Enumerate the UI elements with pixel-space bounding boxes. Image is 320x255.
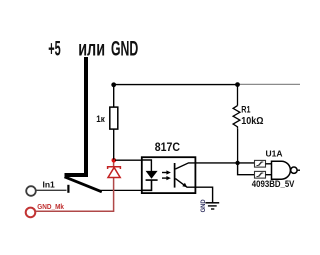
svg-text:U1A: U1A — [266, 148, 283, 158]
svg-text:R1: R1 — [241, 105, 251, 115]
optocoupler U2 817C box — [142, 157, 196, 193]
junction dot gate input — [235, 161, 239, 165]
svg-text:4093BD_5V: 4093BD_5V — [252, 179, 295, 190]
gate input box 1 — [255, 160, 266, 167]
junction node red dot — [112, 158, 117, 163]
wire 1k bottom to node — [113, 129, 115, 160]
wire collector to gate input1 — [175, 163, 254, 169]
wire box2 to gate — [266, 174, 272, 176]
opto LED triangle — [146, 171, 158, 179]
resistor R1 zigzag — [233, 106, 240, 129]
junction dot 1k top — [111, 82, 116, 87]
svg-text:GND_Mk: GND_Mk — [37, 204, 64, 211]
phototransistor emitter — [175, 179, 212, 203]
coupling arrow 2 — [162, 176, 171, 180]
opto LED cathode bar and path — [142, 180, 158, 190]
svg-text:1к: 1к — [96, 113, 105, 124]
svg-text:GND: GND — [111, 36, 138, 60]
svg-text:+5: +5 — [48, 37, 60, 61]
wire R1 bottom to junction — [237, 129, 239, 163]
switch lever SW — [65, 177, 102, 192]
wire thick +5/GND feed — [65, 57, 87, 175]
gray rail continuation — [238, 83, 301, 85]
wire rail to R1 — [237, 85, 239, 106]
opto LED anode path — [142, 160, 152, 171]
svg-text:10kΩ: 10kΩ — [241, 116, 264, 128]
power label +5 или GND — [48, 36, 138, 61]
gate output bubble — [291, 167, 297, 173]
wire node to opto pin1 — [115, 159, 152, 161]
switch contact tick — [67, 185, 69, 193]
gate input box 2 — [255, 171, 266, 178]
diode D1 red (schottky, cathode up) — [108, 167, 121, 178]
wire rail to 1k — [113, 85, 115, 108]
wire In1 to switch — [36, 189, 67, 191]
gate U1A body — [272, 161, 291, 179]
top rail wire — [114, 84, 238, 86]
terminal In1 — [26, 186, 36, 196]
wire gate output — [297, 169, 300, 171]
svg-text:In1: In1 — [43, 179, 56, 189]
wire to gate input2 — [238, 163, 255, 175]
junction dot R1 top — [235, 82, 240, 87]
terminal GND_MK — [26, 208, 36, 218]
coupling arrow 1 — [162, 170, 171, 174]
wire GND_MK red — [36, 160, 114, 211]
svg-text:GND: GND — [201, 199, 207, 213]
wire switch to opto cathode — [101, 189, 142, 191]
svg-text:817C: 817C — [155, 141, 180, 154]
phototransistor base bar — [174, 163, 176, 188]
resistor 1k (box) — [110, 107, 118, 129]
wire box1 to gate — [266, 163, 272, 165]
ground — [205, 203, 219, 209]
svg-text:или: или — [78, 37, 105, 60]
